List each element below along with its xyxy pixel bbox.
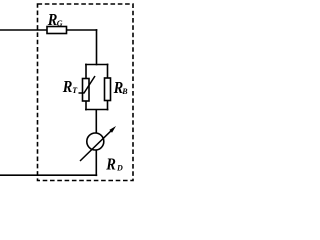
thermistor RT strike line — [79, 76, 96, 93]
svg-text:R: R — [105, 155, 116, 173]
wire: top bar of parallel branches — [85, 64, 108, 66]
svg-text:B: B — [121, 87, 128, 96]
thermistor RT body — [83, 79, 90, 102]
resistor RB body — [105, 78, 111, 101]
svg-text:R: R — [62, 78, 73, 96]
resistor RG — [47, 27, 67, 34]
wire: left branch top lead — [85, 64, 87, 79]
wire: right branch top lead — [107, 64, 109, 78]
wire: bottom lead to left edge — [0, 174, 97, 176]
wire: left branch bottom lead — [85, 101, 87, 110]
dashed enclosure box — [38, 4, 134, 181]
RD arrowhead — [109, 126, 116, 133]
wire: vertical down to parallel section — [96, 29, 98, 65]
wire: top lead from left edge to RG — [0, 29, 47, 31]
wire: RG to top-right corner — [67, 29, 98, 31]
wire: bar down to RD circle — [95, 110, 97, 134]
RD adjustment arrow shaft — [80, 129, 113, 161]
svg-text:G: G — [57, 19, 63, 28]
wire: RD circle down to bottom lead — [95, 150, 97, 176]
wire: right branch bottom lead — [107, 101, 109, 111]
wire: bottom bar of parallel branches — [85, 109, 108, 111]
variable resistor RD circle — [87, 133, 104, 150]
svg-text:D: D — [116, 163, 123, 172]
